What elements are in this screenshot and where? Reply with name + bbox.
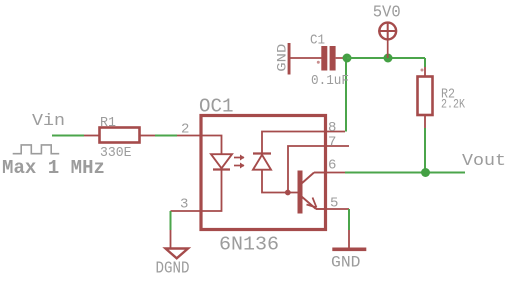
wire (photodiode anode to base node) [262, 170, 298, 193]
light arrows [234, 155, 245, 169]
wire [155, 135, 177, 137]
svg-text:GND: GND [331, 254, 361, 272]
svg-text:OC1: OC1 [199, 96, 234, 118]
wire (rail to R2) [424, 58, 426, 67]
optocoupler OC1 box [201, 116, 326, 230]
wire (pin6 to Vout) [345, 172, 465, 174]
junction (5V0 node) [384, 54, 393, 63]
svg-text:6N136: 6N136 [219, 234, 279, 256]
wire [52, 135, 84, 137]
wire (R2 to Vout node) [424, 128, 426, 173]
supply 5V0 [378, 22, 397, 58]
svg-text:GND: GND [275, 43, 290, 71]
pin 6 [326, 172, 346, 174]
wire (pin5 down) [348, 209, 350, 230]
ground DGND (triangle) [156, 230, 190, 279]
svg-text:2: 2 [181, 122, 189, 138]
wire (top rail) [347, 57, 425, 59]
svg-text:C1: C1 [310, 33, 325, 49]
pin 3 [171, 210, 202, 212]
svg-text:R1: R1 [100, 115, 116, 131]
junction (base node) [285, 190, 291, 196]
junction (C1 / pin8 node) [343, 54, 352, 63]
wire (pin2 internal to LED anode) [201, 136, 222, 155]
pin 2 [177, 135, 201, 137]
svg-text:3: 3 [180, 197, 188, 213]
svg-text:0.1uF: 0.1uF [311, 73, 349, 89]
supply GND (left of C1) [275, 43, 291, 75]
svg-text:5: 5 [330, 196, 338, 212]
svg-text:Vout: Vout [462, 152, 506, 171]
LED inside OC1 [211, 154, 232, 169]
pin 7 [326, 145, 350, 147]
square wave symbol [13, 145, 60, 154]
wire (pin7 internal to base node) [288, 146, 326, 193]
svg-text:6: 6 [328, 158, 336, 174]
svg-text:2.2K: 2.2K [441, 97, 465, 112]
junction (Vout node) [421, 168, 430, 177]
svg-text:Max 1 MHz: Max 1 MHz [2, 157, 105, 179]
resistor R1 [84, 115, 155, 161]
svg-text:DGND: DGND [156, 260, 190, 279]
svg-text:7: 7 [328, 135, 336, 151]
pin 5 [326, 208, 350, 210]
photodiode inside OC1 [253, 154, 271, 170]
wire (pin8 internal to photodiode) [262, 132, 326, 154]
svg-text:5V0: 5V0 [373, 4, 401, 23]
wire (pin8 up to rail) [345, 58, 347, 132]
svg-text:330E: 330E [100, 145, 132, 161]
wire (pin3 down) [170, 211, 172, 230]
pin 8 [326, 131, 346, 133]
svg-text:Vin: Vin [32, 112, 65, 131]
wire (LED cathode to pin3 internal) [201, 170, 222, 212]
resistor R2 [418, 67, 466, 128]
capacitor C1 [289, 33, 349, 90]
transistor (phototransistor) [298, 171, 326, 214]
ground GND (flat bar) [331, 230, 366, 272]
